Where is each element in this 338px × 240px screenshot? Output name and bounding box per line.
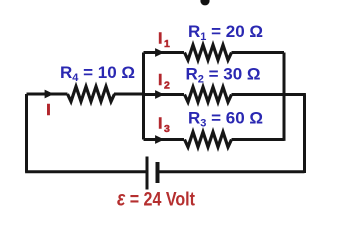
current arrow I	[45, 90, 54, 99]
battery: short plate (-)	[156, 162, 160, 183]
wire: branch 2 horizontal (continues to right side)	[144, 93, 306, 96]
wire: bottom right segment from battery	[159, 170, 305, 173]
cropped title letter fragment (top)	[200, 0, 209, 5]
wire: right vertical side	[303, 95, 306, 174]
svg-text:R3 = 60 Ω: R3 = 60 Ω	[188, 109, 263, 130]
resistor R1 (zigzag)	[185, 45, 232, 60]
wire: bottom left segment to battery	[25, 170, 145, 173]
resistor R4 (zigzag)	[68, 87, 115, 102]
current arrow I1	[155, 48, 164, 57]
node: right bus (parallel junction vertical)	[283, 53, 286, 141]
svg-text:I: I	[46, 102, 50, 119]
svg-text:R1 = 20 Ω: R1 = 20 Ω	[188, 22, 263, 43]
battery: long plate (+)	[146, 157, 149, 190]
node: left bus (parallel junction vertical)	[142, 53, 145, 140]
current arrow I2	[155, 90, 164, 99]
svg-text:R2 = 30 Ω: R2 = 30 Ω	[186, 65, 261, 86]
wire: R4 branch horizontal (node to left bus)	[27, 93, 145, 96]
svg-text:R4 = 10 Ω: R4 = 10 Ω	[60, 63, 135, 84]
svg-text:ε = 24 Volt: ε = 24 Volt	[117, 188, 195, 211]
wire: left vertical side	[25, 94, 28, 172]
wire: branch 3 horizontal	[144, 138, 285, 141]
resistor R3 (zigzag)	[185, 132, 232, 147]
wire: branch 1 horizontal	[144, 51, 285, 54]
resistor R2 (zigzag)	[185, 87, 232, 102]
current arrow I3	[155, 135, 164, 144]
